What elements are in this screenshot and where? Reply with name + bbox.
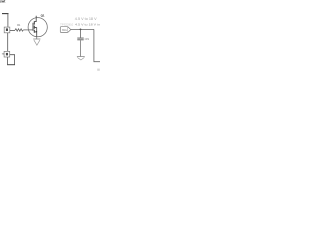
transistor Q1 channel segments xyxy=(33,21,35,33)
wire: junction to CIN xyxy=(80,29,82,37)
svg-text:swt: swt xyxy=(0,0,6,4)
transistor Q1 source connection xyxy=(34,32,36,37)
ground (CIN) xyxy=(77,56,85,58)
wire: box A to R1 xyxy=(10,29,15,31)
transistor Q1 circle xyxy=(28,18,47,37)
wire: box A to box B xyxy=(7,33,9,52)
wire: source to ground xyxy=(36,37,38,39)
svg-text:Vin: Vin xyxy=(62,28,67,32)
transistor Q1 body arrow xyxy=(34,28,36,32)
wire: stub down to connector A xyxy=(7,14,9,28)
port Vin xyxy=(60,27,68,33)
wire: box B right pin down xyxy=(10,55,15,65)
probe arrow at box B xyxy=(2,53,3,55)
svg-text:R1: R1 xyxy=(17,23,20,27)
connector box A xyxy=(4,27,10,33)
transistor Q1 gate plate xyxy=(32,23,34,31)
ground (Q1 source) xyxy=(33,38,40,40)
wire: input stub xyxy=(2,13,9,15)
svg-text:CIN: CIN xyxy=(85,37,90,41)
wire: box B bottom pin down xyxy=(7,57,9,65)
wire: Vin rail xyxy=(71,28,94,30)
transistor Q1 drain connection xyxy=(34,16,36,22)
text fragment bottom right xyxy=(97,69,100,71)
junction node xyxy=(80,29,82,31)
svg-text:TPS22810: TPS22810 xyxy=(60,23,74,26)
capacitor CIN xyxy=(77,38,83,40)
wire: rail down and out right xyxy=(94,29,100,61)
resistor R1 xyxy=(15,29,23,32)
wire: bottom return bar xyxy=(7,64,15,66)
svg-text:4.5 V to 18 V in: 4.5 V to 18 V in xyxy=(75,22,100,26)
svg-text:4.5 V to 18 V: 4.5 V to 18 V xyxy=(75,17,98,21)
transistor Q1 bulk-source junction xyxy=(36,31,37,32)
connector box B xyxy=(4,51,10,57)
wire: CIN to ground xyxy=(80,40,82,56)
wire: R1 to gate xyxy=(23,29,32,31)
svg-text:Q1: Q1 xyxy=(41,14,45,18)
